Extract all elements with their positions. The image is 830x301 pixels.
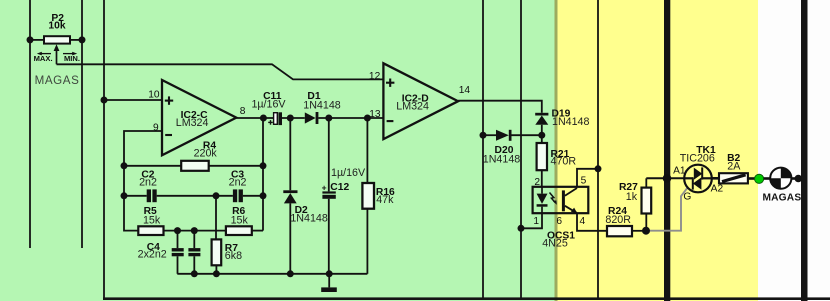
svg-text:15k: 15k [143, 215, 161, 227]
svg-text:4N25: 4N25 [542, 237, 568, 249]
OCS1 internal LED [537, 187, 548, 213]
ground [321, 274, 337, 292]
P2 wiper arrow [54, 44, 60, 64]
resistor R5 15k [138, 206, 226, 235]
svg-text:10: 10 [148, 90, 160, 101]
mains return rail (thick vertical right) [801, 0, 808, 301]
svg-text:2: 2 [534, 177, 540, 188]
OCS1 phototransistor [562, 188, 577, 213]
svg-text:1: 1 [533, 216, 539, 227]
svg-text:A1: A1 [673, 166, 686, 177]
wire: C2/C3 midpoint down to R7 [215, 196, 217, 240]
capacitor C4 2x2n2 (two in parallel) [138, 231, 201, 274]
diode D2 1N4148 [283, 118, 328, 274]
gate wire (grey) from R24/R27 node to TK1 gate [646, 188, 688, 231]
svg-text:220k: 220k [194, 148, 218, 160]
wire: IC2-C pin 9 feedback branch [124, 131, 163, 231]
svg-text:+: + [322, 183, 327, 193]
wire D1 to IC2-D pin 13 [318, 117, 383, 119]
svg-text:1µ/16V: 1µ/16V [251, 98, 286, 110]
resistor R6 15k [226, 206, 263, 235]
supply rail (x=82) [81, 0, 83, 248]
wire TK1 A2 to fuse B2 [712, 177, 719, 180]
svg-text:1k: 1k [626, 191, 638, 203]
svg-text:LM324: LM324 [396, 101, 429, 113]
wire OCS1 pin 1 to rail x=521 [521, 213, 542, 228]
wire IC2-D pin 14 output [458, 101, 542, 113]
triac TK1 TIC206 [673, 145, 723, 203]
svg-text:2n2: 2n2 [139, 176, 157, 188]
svg-text:47k: 47k [376, 194, 394, 206]
rail (x=598) [597, 0, 599, 298]
svg-text:1N4148: 1N4148 [483, 154, 520, 166]
diode D19 1N4148 [535, 109, 589, 136]
supply rail left (x=30) [29, 0, 31, 248]
green indicator node [755, 174, 764, 183]
svg-text:1µ/16V: 1µ/16V [331, 167, 366, 179]
svg-text:1N4148: 1N4148 [303, 100, 340, 112]
svg-text:1N4148: 1N4148 [290, 213, 327, 225]
svg-text:5: 5 [581, 176, 587, 187]
mains live rail (thick vertical) [664, 0, 670, 301]
rail (x=483) [482, 0, 484, 298]
svg-text:LM324: LM324 [176, 117, 209, 129]
resistor R27 1k [619, 178, 651, 231]
svg-text:2A: 2A [727, 161, 741, 173]
capacitor C3 2n2 [229, 170, 263, 203]
optocoupler OCS1 4N25 [533, 176, 589, 250]
wire R27 top to triac A1 across live rail [646, 177, 685, 179]
rail (x=521) [520, 0, 522, 298]
OCS1 light arrow [550, 193, 557, 205]
potentiometer P2 10k [30, 13, 82, 44]
resistor R7 6k8 [212, 239, 242, 273]
wire: rail x104 to IC2-C pin 10 [104, 99, 163, 101]
resistor R16 47k [362, 118, 395, 274]
capacitor C11 1u/16V [251, 91, 286, 125]
wire OCS1 pin 2 from R21 covered above; pin 5 to rail x=598 [577, 169, 598, 187]
MIN direction arrow [63, 52, 80, 63]
MAX direction arrow [34, 52, 53, 63]
wire lamp to return rail [791, 177, 801, 180]
svg-text:10k: 10k [48, 21, 65, 32]
resistor R4 220k [124, 141, 263, 171]
svg-text:14: 14 [459, 85, 471, 96]
svg-text:820R: 820R [605, 214, 631, 226]
wire C11 to D1 [282, 117, 305, 119]
resistor R21 470R [537, 135, 577, 187]
bottom filter wire [177, 273, 367, 275]
svg-text:13: 13 [369, 109, 381, 120]
op-amp IC2-C [148, 80, 246, 155]
svg-text:MAX.: MAX. [34, 54, 53, 63]
svg-text:TIC206: TIC206 [680, 152, 715, 164]
svg-text:15k: 15k [231, 215, 249, 227]
svg-text:8: 8 [240, 106, 246, 117]
svg-text:6k8: 6k8 [225, 250, 242, 262]
bottom common wire [103, 297, 830, 300]
diode D1 1N4148 [303, 91, 340, 124]
wire B2 to indicator [748, 177, 755, 180]
diode D20 1N4148 [483, 130, 542, 166]
svg-text:4: 4 [579, 216, 585, 227]
svg-text:MIN.: MIN. [64, 54, 80, 63]
zones [0, 0, 556, 301]
svg-text:1N4148: 1N4148 [552, 116, 589, 128]
capacitor C12 1u/16V [322, 118, 366, 274]
wire indicator to lamp [764, 177, 771, 180]
feedback rail x=263 (pin8 down to R6) [262, 118, 264, 231]
wire OCS1 pin 4 to R24 [577, 213, 607, 231]
op-amp IC2-D [369, 63, 470, 139]
svg-text:6: 6 [556, 216, 562, 227]
wire: IC2-C output to C11 [236, 117, 273, 119]
wire: wiper to IC2-D pin 12 [57, 64, 384, 79]
resistor R24 820R [605, 206, 646, 236]
wire C2 to C3 [157, 195, 233, 197]
svg-text:A2: A2 [711, 184, 724, 195]
svg-text:G: G [683, 192, 691, 203]
svg-text:MAGAS: MAGAS [35, 74, 80, 87]
fuse B2 2A [719, 153, 748, 183]
svg-text:2n2: 2n2 [229, 176, 247, 188]
svg-text:2x2n2: 2x2n2 [138, 249, 167, 261]
reference rail (x=104) [103, 0, 105, 298]
svg-text:MAGAS: MAGAS [762, 192, 801, 203]
svg-text:C12: C12 [330, 182, 349, 193]
lamp MAGAS [762, 168, 801, 204]
capacitor C2 2n2 [124, 170, 157, 203]
svg-text:12: 12 [369, 71, 381, 82]
svg-text:470R: 470R [551, 156, 577, 168]
